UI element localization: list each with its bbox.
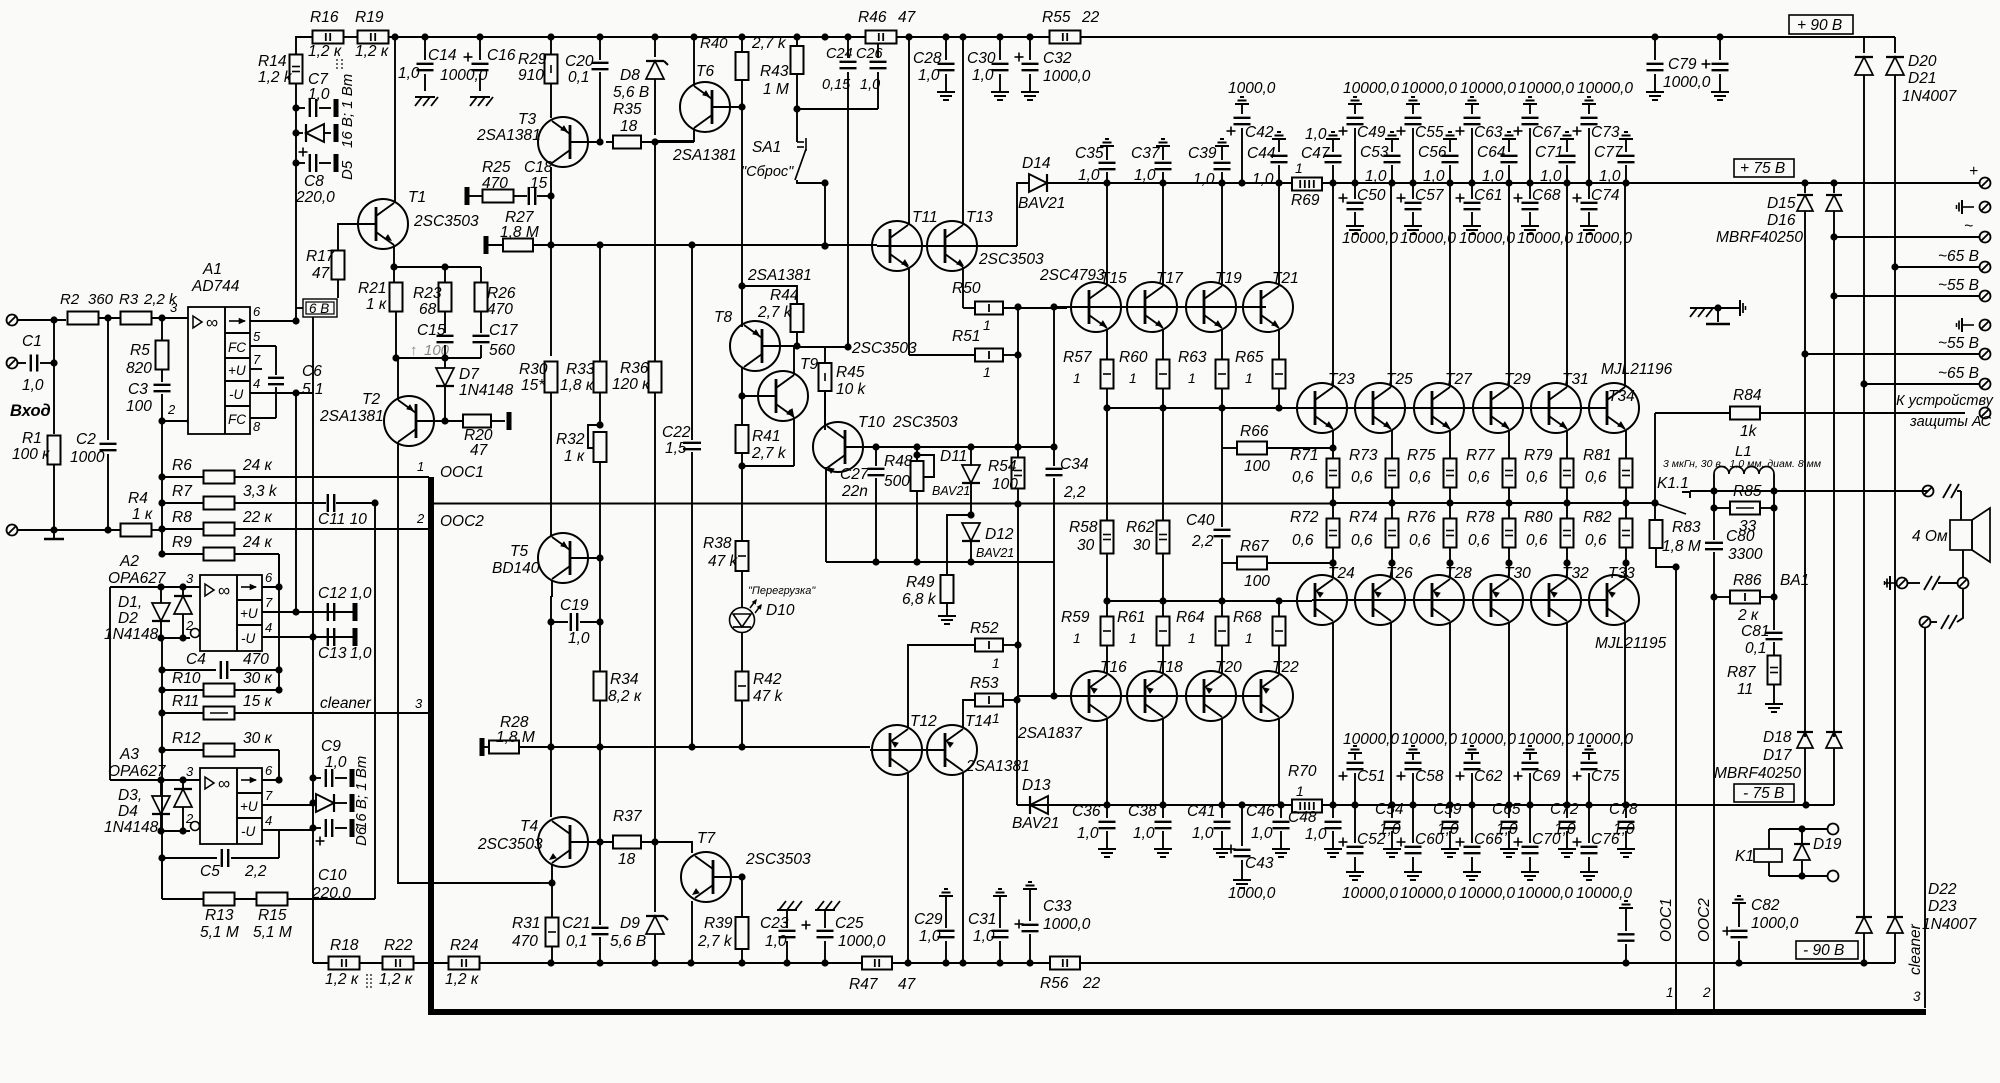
svg-text:10000,0: 10000,0 <box>1343 731 1399 748</box>
diode D1 <box>160 587 162 603</box>
svg-text:4: 4 <box>253 376 260 391</box>
svg-text:BAV21: BAV21 <box>932 484 970 498</box>
svg-text:R42: R42 <box>753 671 782 688</box>
svg-text:10000,0: 10000,0 <box>1576 885 1632 902</box>
T10 base from R45 <box>824 391 826 426</box>
svg-text:2SC3503: 2SC3503 <box>892 414 958 431</box>
capacitor C65 <box>1508 805 1510 818</box>
svg-text:1,2 к: 1,2 к <box>445 971 479 988</box>
capacitor C78 <box>1625 805 1627 818</box>
svg-text:C57: C57 <box>1415 187 1445 204</box>
transistor T10 <box>813 422 863 472</box>
diode D12 <box>962 523 980 541</box>
lower driver collectors down <box>1106 718 1108 805</box>
capacitor C67 <box>1529 104 1531 108</box>
svg-text:T13: T13 <box>966 209 993 226</box>
left column A2-A3 <box>109 587 111 780</box>
resistor R58 <box>1101 521 1114 554</box>
resistor R62 <box>1157 521 1170 554</box>
svg-text:10000,0: 10000,0 <box>1577 80 1633 97</box>
resistor R5 <box>161 318 163 341</box>
svg-text:220,0: 220,0 <box>295 189 335 206</box>
gnd terminal 2 <box>1962 324 1974 326</box>
capacitor C21 <box>599 842 601 925</box>
capacitor C52 <box>1354 805 1356 843</box>
svg-text:BAV21: BAV21 <box>976 546 1014 560</box>
svg-text:C63: C63 <box>1474 124 1503 141</box>
rail -75V <box>1017 804 1834 806</box>
feedback resistor rows from pin2 column <box>161 421 163 554</box>
svg-text:R76: R76 <box>1407 509 1436 526</box>
svg-text:1,0: 1,0 <box>1251 825 1273 842</box>
svg-text:- 75 В: - 75 В <box>1743 785 1784 802</box>
svg-text:C43: C43 <box>1245 855 1274 872</box>
svg-text:+U: +U <box>228 363 246 378</box>
svg-text:T14: T14 <box>965 713 992 730</box>
transistor T2 <box>384 396 434 446</box>
transistor T5 <box>538 533 588 583</box>
resistor R22 <box>383 957 414 970</box>
resistor R74 <box>1391 503 1393 519</box>
svg-text:C39: C39 <box>1188 145 1217 162</box>
wire -U column x313 <box>312 393 314 963</box>
svg-text:R18: R18 <box>330 937 359 954</box>
svg-text:0,6: 0,6 <box>1351 469 1373 486</box>
svg-text:2SA1381: 2SA1381 <box>672 147 737 164</box>
resistor R54 <box>1012 458 1025 489</box>
capacitor C5 <box>158 854 165 861</box>
svg-text:15: 15 <box>530 175 548 192</box>
svg-text:1,0: 1,0 <box>1192 825 1214 842</box>
wire R14 top to R16 <box>296 37 312 54</box>
resistor R2 <box>68 312 99 325</box>
capacitor C74 <box>1588 183 1590 199</box>
resistor R60 <box>1162 329 1164 360</box>
svg-text:1N4007: 1N4007 <box>1902 88 1958 105</box>
svg-text:C2: C2 <box>76 431 96 448</box>
svg-text:C48: C48 <box>1288 809 1317 826</box>
svg-text:R48: R48 <box>884 453 913 470</box>
resistor R47 <box>862 957 892 970</box>
svg-text:1,8 М: 1,8 М <box>500 224 539 241</box>
capacitor C37 <box>1162 146 1164 150</box>
diode D2 <box>182 587 184 596</box>
svg-text:T22: T22 <box>1272 659 1299 676</box>
svg-text:2,7 k: 2,7 k <box>751 35 787 52</box>
svg-text:1,0: 1,0 <box>350 585 372 602</box>
svg-text:T20: T20 <box>1215 659 1242 676</box>
svg-text:OPA627: OPA627 <box>108 763 167 780</box>
resistor R30 <box>545 362 558 393</box>
svg-text:K1.1: K1.1 <box>1657 475 1689 492</box>
svg-text:R79: R79 <box>1524 447 1553 464</box>
svg-text:C20: C20 <box>565 53 594 70</box>
svg-text:100: 100 <box>1244 458 1270 475</box>
svg-text:18: 18 <box>618 851 636 868</box>
pin 8 stub <box>250 417 276 419</box>
svg-text:T5: T5 <box>510 543 528 560</box>
svg-text:T1: T1 <box>408 189 426 206</box>
svg-text:R80: R80 <box>1524 509 1553 526</box>
transistor T27 <box>1414 383 1464 433</box>
bracket R12 to A3 <box>278 750 280 780</box>
svg-text:5: 5 <box>253 329 261 344</box>
svg-text:1,0: 1,0 <box>1540 168 1562 185</box>
svg-text:24 к: 24 к <box>242 534 273 551</box>
svg-text:R31: R31 <box>512 915 540 932</box>
svg-text:MJL21196: MJL21196 <box>1601 361 1673 378</box>
capacitor C56 <box>1449 139 1451 143</box>
svg-text:4: 4 <box>265 813 272 828</box>
svg-text:R49: R49 <box>906 574 935 591</box>
resistor R20 <box>445 420 463 422</box>
diode D22 <box>1856 917 1872 933</box>
svg-text:1: 1 <box>1296 783 1304 799</box>
transistor T25 <box>1355 383 1405 433</box>
transistor T14 <box>927 725 977 775</box>
capacitor C36 <box>1106 805 1108 818</box>
svg-text:C49: C49 <box>1357 124 1386 141</box>
svg-text:3,3 k: 3,3 k <box>243 483 278 500</box>
svg-text:47 k: 47 k <box>753 688 784 705</box>
capacitor C46 <box>1280 805 1282 818</box>
svg-text:T10: T10 <box>858 414 885 431</box>
dotted mark <box>336 59 338 61</box>
T1 collector wire <box>394 37 396 203</box>
wire ~65V bottom <box>1864 383 1979 385</box>
ground tie symbol <box>1690 307 1710 309</box>
transistor T1 <box>358 199 408 249</box>
capacitor C20 <box>599 37 601 60</box>
terminal + <box>1980 178 1991 189</box>
svg-text:1,0: 1,0 <box>22 377 44 394</box>
svg-text:1,0: 1,0 <box>765 933 787 950</box>
columns x1107 x1163 between rows <box>1106 408 1108 520</box>
bottom bank base row <box>1312 599 1607 601</box>
capacitor C31 <box>999 896 1001 900</box>
svg-text:R43: R43 <box>760 63 789 80</box>
svg-text:C80: C80 <box>1726 528 1755 545</box>
bottom rail junctions <box>547 959 554 966</box>
svg-text:820: 820 <box>126 360 152 377</box>
svg-text:OOC1: OOC1 <box>1658 898 1675 942</box>
capacitor C11 <box>327 494 329 512</box>
svg-text:D9: D9 <box>620 915 640 932</box>
bracket column x279 <box>278 554 280 690</box>
svg-text:1,0: 1,0 <box>325 754 347 771</box>
svg-text:R15: R15 <box>258 907 287 924</box>
svg-text:R52: R52 <box>970 620 999 637</box>
svg-text:+U: +U <box>240 799 258 814</box>
svg-text:T12: T12 <box>910 713 937 730</box>
bottom rail y963 <box>313 962 1895 964</box>
T12 emitter to R52 <box>908 645 975 727</box>
diode D17 <box>1804 727 1806 737</box>
svg-text:"Сброс": "Сброс" <box>741 164 794 180</box>
decoupling capacitor near OOC1 <box>1625 908 1627 912</box>
T3 collector column <box>550 167 552 356</box>
resistors R13 R15 <box>161 858 163 899</box>
svg-text:R85: R85 <box>1733 483 1762 500</box>
column x313 from 6V <box>312 317 314 393</box>
transistor T31 <box>1531 383 1581 433</box>
svg-text:C73: C73 <box>1591 124 1620 141</box>
T5 collector down <box>551 580 552 596</box>
transistor T15 <box>1071 282 1121 332</box>
T6 collector down <box>655 128 694 141</box>
svg-text:R46: R46 <box>858 9 887 26</box>
svg-text:∞: ∞ <box>218 774 230 793</box>
svg-text:A3: A3 <box>119 746 139 763</box>
capacitor C4 <box>158 666 165 673</box>
resistor R59 <box>1106 601 1108 617</box>
svg-text:10000,0: 10000,0 <box>1343 80 1399 97</box>
svg-text:R21: R21 <box>358 280 386 297</box>
svg-text:R70: R70 <box>1288 763 1317 780</box>
wire to pin 3 <box>152 317 188 319</box>
svg-text:R45: R45 <box>836 364 865 381</box>
A2 +U pin7 <box>262 611 355 613</box>
svg-text:1N4148: 1N4148 <box>104 819 159 836</box>
resistor R23 <box>444 267 446 283</box>
svg-text:1,0: 1,0 <box>1365 168 1387 185</box>
A3 pin2 row <box>161 830 190 832</box>
node row y358 <box>394 357 481 359</box>
LED D10 <box>741 571 743 608</box>
svg-text:R4: R4 <box>128 490 148 507</box>
svg-text:C51: C51 <box>1357 768 1385 785</box>
T10 collector row 446 <box>845 446 876 448</box>
svg-text:R35: R35 <box>613 101 642 118</box>
svg-text:68: 68 <box>419 301 437 318</box>
svg-text:1,0: 1,0 <box>1134 167 1156 184</box>
transistor T29 <box>1473 383 1523 433</box>
svg-text:10000,0: 10000,0 <box>1342 230 1398 247</box>
diode D15 <box>1804 183 1806 193</box>
transistor T16 <box>1071 671 1121 721</box>
svg-text:К устройству: К устройству <box>1896 393 1994 409</box>
capacitor C79b electrolytic <box>1719 37 1721 60</box>
T9 base wire <box>742 395 776 397</box>
svg-text:T34: T34 <box>1608 388 1635 405</box>
svg-text:R73: R73 <box>1349 447 1378 464</box>
svg-text:C31: C31 <box>968 911 996 928</box>
capacitor C50 <box>1354 183 1356 199</box>
resistor R77 <box>1508 430 1510 459</box>
svg-text:C37: C37 <box>1131 145 1161 162</box>
svg-text:T18: T18 <box>1156 659 1183 676</box>
resistor R24 <box>449 957 480 970</box>
wire R85-R86 right column <box>1773 508 1775 597</box>
svg-text:C25: C25 <box>835 915 864 932</box>
svg-text:R50: R50 <box>952 280 981 297</box>
capacitor C75 <box>1588 753 1590 757</box>
svg-text:~: ~ <box>1964 218 1973 235</box>
svg-text:C4: C4 <box>186 651 206 668</box>
svg-text:2SA1381: 2SA1381 <box>476 127 541 144</box>
diode D20 <box>1863 37 1865 53</box>
diode D6 <box>313 802 316 804</box>
svg-text:10000,0: 10000,0 <box>1401 731 1457 748</box>
dotted mark 2 <box>366 974 368 976</box>
bottom right rail corner <box>1622 959 1629 966</box>
svg-text:- 90 В: - 90 В <box>1803 942 1844 959</box>
svg-text:T9: T9 <box>800 356 818 373</box>
wire output row 491 <box>1690 490 1928 492</box>
svg-text:5,1 М: 5,1 М <box>200 924 239 941</box>
svg-text:10000,0: 10000,0 <box>1518 731 1574 748</box>
svg-text:1,0: 1,0 <box>1305 826 1327 843</box>
svg-text:C28: C28 <box>913 50 942 67</box>
diode D11 <box>970 447 972 466</box>
capacitor C19 <box>551 621 568 623</box>
svg-text:1000,0: 1000,0 <box>838 933 886 950</box>
column SA1 down to base bus <box>824 183 826 246</box>
svg-text:1,0: 1,0 <box>1305 126 1327 143</box>
resistor R36 <box>654 142 656 362</box>
svg-text:8,2 к: 8,2 к <box>608 688 642 705</box>
resistor R70 <box>1292 800 1322 813</box>
svg-text:C47: C47 <box>1301 145 1331 162</box>
svg-text:2SC3503: 2SC3503 <box>477 836 543 853</box>
svg-text:BAV21: BAV21 <box>1018 195 1065 212</box>
resistor R21 <box>393 267 395 283</box>
svg-text:"Перегрузка": "Перегрузка" <box>748 585 816 597</box>
A2 -U pin4 <box>262 636 355 638</box>
resistor R33 <box>599 245 601 362</box>
svg-text:C75: C75 <box>1591 768 1620 785</box>
svg-text:C34: C34 <box>1060 456 1089 473</box>
svg-text:1,0: 1,0 <box>568 630 590 647</box>
resistor R42 <box>741 633 743 672</box>
svg-text:1: 1 <box>983 317 991 333</box>
svg-text:R66: R66 <box>1240 423 1269 440</box>
resistor R8 <box>158 525 165 532</box>
resistor R51 <box>909 354 975 356</box>
svg-text:C23: C23 <box>760 915 789 932</box>
svg-text:D19: D19 <box>1813 836 1842 853</box>
svg-text:MBRF40250: MBRF40250 <box>1716 229 1803 246</box>
svg-text:1: 1 <box>1073 630 1081 646</box>
T11 T13 base link <box>877 245 944 247</box>
svg-text:1,0: 1,0 <box>308 86 330 103</box>
resistor R49 <box>947 515 971 575</box>
svg-text:1: 1 <box>1188 630 1196 646</box>
svg-text:22: 22 <box>1082 975 1101 992</box>
input terminal 3 (common) <box>7 525 18 536</box>
svg-text:D17: D17 <box>1763 747 1793 764</box>
capacitor C71 <box>1566 139 1568 143</box>
svg-text:MJL21195: MJL21195 <box>1595 635 1667 652</box>
resistor R3 <box>121 312 152 325</box>
svg-text:3: 3 <box>415 696 423 711</box>
svg-text:C54: C54 <box>1375 801 1404 818</box>
capacitor C32 <box>1029 37 1031 60</box>
T1 base wire <box>338 224 376 251</box>
cleaner line right <box>1924 628 1926 1008</box>
svg-text:+ 90 В: + 90 В <box>1797 17 1842 34</box>
resistor R25 and capacitor C18 <box>465 187 470 205</box>
T6 emitter to rail <box>693 37 695 86</box>
T3 base wire <box>570 141 600 143</box>
A3 output pin6 <box>262 779 279 781</box>
capacitor C70 <box>1529 805 1531 843</box>
svg-text:D16: D16 <box>1767 212 1796 229</box>
svg-text:0,6: 0,6 <box>1409 469 1431 486</box>
resistor R50 <box>963 307 975 309</box>
row 347 to R45 <box>797 346 848 348</box>
transistor T12 <box>872 725 922 775</box>
svg-text:0,1: 0,1 <box>568 69 590 86</box>
svg-text:C82: C82 <box>1751 897 1780 914</box>
svg-text:C77: C77 <box>1594 144 1624 161</box>
svg-text:0,6: 0,6 <box>1526 532 1548 549</box>
svg-text:3: 3 <box>170 300 178 315</box>
resistor R44 <box>791 304 804 332</box>
svg-text:2,7 k: 2,7 k <box>697 933 733 950</box>
svg-text:~55 В: ~55 В <box>1938 277 1979 294</box>
svg-text:10000,0: 10000,0 <box>1518 80 1574 97</box>
svg-text:1,8 к: 1,8 к <box>560 377 594 394</box>
resistor R4 <box>121 524 152 537</box>
svg-text:R26: R26 <box>487 285 516 302</box>
svg-text:T31: T31 <box>1562 371 1589 388</box>
svg-text:C42: C42 <box>1245 124 1274 141</box>
capacitor C25 <box>815 909 835 911</box>
svg-text:T28: T28 <box>1445 565 1472 582</box>
svg-text:47: 47 <box>470 442 489 459</box>
third terminal row <box>1957 589 1963 622</box>
T11 collector <box>908 37 910 225</box>
svg-text:C26: C26 <box>856 46 884 62</box>
svg-text:100: 100 <box>992 476 1018 493</box>
svg-text:R2: R2 <box>60 291 80 308</box>
svg-text:R12: R12 <box>172 730 201 747</box>
svg-text:D2: D2 <box>118 610 138 627</box>
base row 307 <box>1054 306 1266 308</box>
svg-text:FC: FC <box>228 412 246 427</box>
resistor R41 <box>736 425 749 453</box>
svg-text:470: 470 <box>482 175 508 192</box>
resistor R66 <box>1222 447 1238 449</box>
OOC2 feedback line right <box>1710 593 1717 600</box>
svg-text:10000,0: 10000,0 <box>1460 80 1516 97</box>
svg-text:1: 1 <box>992 655 1000 671</box>
resistor R79 <box>1566 430 1568 459</box>
relay K1 <box>1754 849 1782 862</box>
svg-text:2SA1381: 2SA1381 <box>965 758 1030 775</box>
column x1017 to D13 <box>1017 645 1019 696</box>
capacitor C27 <box>875 447 877 466</box>
resistor R68 <box>1278 601 1280 617</box>
svg-text:C13: C13 <box>318 645 347 662</box>
svg-text:D5: D5 <box>339 160 356 180</box>
svg-text:защиты АС: защиты АС <box>1909 414 1992 430</box>
svg-text:R38: R38 <box>703 535 732 552</box>
svg-text:24 к: 24 к <box>242 457 273 474</box>
svg-text:1: 1 <box>1245 630 1253 646</box>
T5 base <box>570 557 600 559</box>
resistor R63 <box>1221 329 1223 360</box>
svg-text:R56: R56 <box>1040 975 1069 992</box>
svg-text:Вход: Вход <box>10 402 51 420</box>
svg-text:1,0: 1,0 <box>398 65 420 82</box>
resistor R10 <box>158 686 165 693</box>
transistor T8 <box>730 321 780 371</box>
svg-text:1,0: 1,0 <box>1077 825 1099 842</box>
svg-text:C21: C21 <box>562 915 590 932</box>
svg-text:R9: R9 <box>172 534 192 551</box>
